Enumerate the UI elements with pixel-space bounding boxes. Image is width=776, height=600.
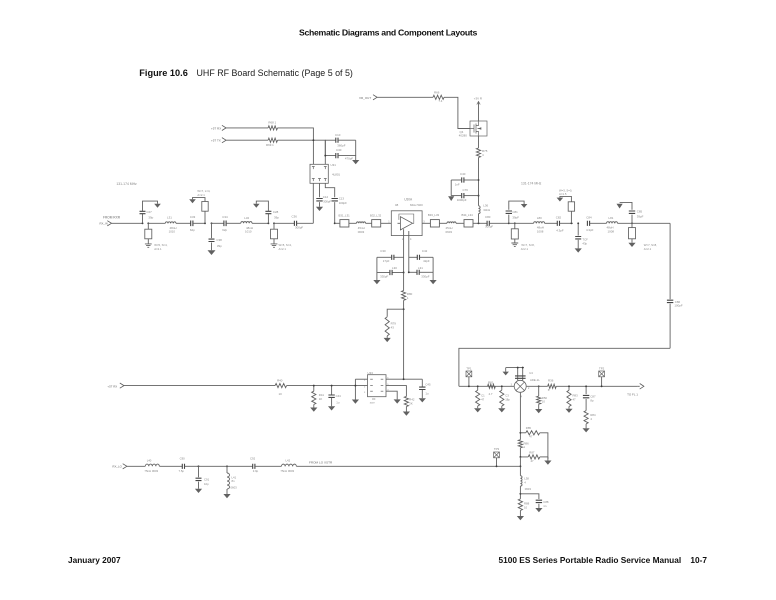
- svg-text:0603: 0603: [231, 486, 238, 490]
- svg-text:C30: C30: [336, 148, 342, 152]
- svg-text:L31: L31: [167, 215, 172, 219]
- svg-text:62p: 62p: [222, 228, 227, 232]
- node Z: [198, 465, 200, 467]
- svg-text:C80: C80: [485, 215, 491, 219]
- svg-text:C34: C34: [222, 215, 228, 219]
- ground: [535, 508, 542, 512]
- svg-text:TP1: TP1: [466, 367, 472, 371]
- svg-text:1000pF: 1000pF: [457, 198, 467, 202]
- svg-text:4.3pF: 4.3pF: [556, 229, 564, 233]
- capacitor C27: [142, 214, 144, 223]
- svg-text:A=2.1: A=2.1: [521, 247, 529, 251]
- svg-text:75nH 0603: 75nH 0603: [280, 469, 294, 473]
- microstrip stub TL5: [570, 211, 572, 223]
- svg-text:C90: C90: [180, 457, 186, 461]
- port +5T TX: [222, 138, 226, 143]
- wire: [478, 158, 480, 206]
- ground: [189, 199, 196, 203]
- wire: [556, 385, 637, 387]
- wire to mixer: [459, 348, 670, 386]
- wire: [473, 222, 487, 224]
- node B: [147, 222, 149, 224]
- test point TP2: [599, 371, 605, 377]
- capacitor C81: [508, 215, 510, 224]
- node T: [585, 385, 587, 387]
- wire: [519, 486, 521, 499]
- ferrite bead FB31: [335, 222, 340, 224]
- feedback capacitor C43: [409, 271, 417, 273]
- feedback capacitor C42: [409, 256, 417, 258]
- svg-text:47: 47: [531, 459, 535, 463]
- svg-text:A=1.5: A=1.5: [559, 192, 567, 196]
- resistor R66: [377, 96, 433, 98]
- ground: [154, 204, 161, 208]
- svg-text:MGL7400: MGL7400: [410, 203, 423, 207]
- svg-text:300pF: 300pF: [485, 225, 493, 229]
- node P: [468, 385, 470, 387]
- node H: [408, 271, 410, 273]
- capacitor C91: [198, 466, 200, 477]
- svg-text:+3V R: +3V R: [474, 97, 482, 101]
- svg-text:42pF: 42pF: [423, 259, 430, 263]
- node M: [570, 222, 572, 224]
- transistor Q4: [470, 121, 487, 136]
- wire: [381, 222, 392, 224]
- capacitor C13: [325, 183, 334, 197]
- svg-text:VR_OUT: VR_OUT: [359, 96, 371, 100]
- SAW output pin 5 / resistor R42: [386, 386, 406, 397]
- resistor R69: [226, 139, 268, 141]
- node B2: [204, 222, 206, 224]
- svg-text:B33_L33: B33_L33: [428, 213, 440, 217]
- ground: [477, 406, 479, 408]
- ground: [352, 160, 359, 164]
- svg-text:L80: L80: [537, 216, 542, 220]
- node D: [312, 139, 314, 141]
- svg-text:TO FL 1: TO FL 1: [627, 392, 638, 396]
- capacitor C84: [587, 221, 589, 226]
- svg-text:TP2: TP2: [599, 367, 605, 371]
- amp bottom stubs: [403, 229, 405, 272]
- resistor R84: [584, 411, 588, 424]
- mixer U4: [514, 380, 526, 392]
- capacitor C82: [545, 222, 558, 224]
- inductor L33: [349, 222, 357, 224]
- svg-text:C10: C10: [335, 133, 341, 137]
- resistor R87: [520, 448, 528, 457]
- resistor R83 shunt: [568, 386, 570, 390]
- svg-text:47: 47: [481, 398, 485, 402]
- resistor R41 shunt: [313, 386, 315, 392]
- inductor L32: [241, 222, 252, 224]
- capacitor C87: [585, 386, 587, 394]
- svg-text:C27: C27: [146, 210, 152, 214]
- svg-text:FROM RXR: FROM RXR: [103, 216, 121, 220]
- node J: [478, 222, 480, 224]
- svg-text:470pF: 470pF: [345, 157, 353, 161]
- svg-text:0603: 0603: [525, 487, 532, 491]
- ground: [501, 406, 503, 408]
- svg-text:C33: C33: [190, 215, 196, 219]
- microstrip stub TL4: [514, 223, 516, 229]
- svg-text:C45: C45: [425, 382, 431, 386]
- svg-text:RX_IN: RX_IN: [100, 221, 108, 225]
- svg-text:U33: U33: [368, 371, 374, 375]
- capacitor C44: [331, 386, 333, 395]
- svg-text:B34_L34: B34_L34: [462, 213, 474, 217]
- ground: [557, 198, 564, 202]
- wire: [278, 140, 326, 164]
- svg-text:C82: C82: [556, 215, 562, 219]
- svg-text:Figure 10.6: Figure 10.6: [139, 68, 188, 78]
- svg-text:300pF: 300pF: [323, 200, 331, 204]
- svg-text:A=2.1: A=2.1: [154, 247, 162, 251]
- node U: [601, 385, 603, 387]
- capacitor C33: [191, 221, 193, 227]
- svg-text:ADE-1L: ADE-1L: [530, 378, 540, 382]
- svg-text:131-174 MHz: 131-174 MHz: [521, 182, 542, 186]
- svg-text:C85: C85: [637, 209, 643, 213]
- svg-text:1008: 1008: [608, 230, 615, 234]
- capacitor C76: [478, 195, 480, 197]
- wire: [112, 222, 143, 224]
- ground: [316, 207, 323, 211]
- svg-text:39pF: 39pF: [637, 214, 644, 218]
- svg-text:43p: 43p: [582, 241, 587, 245]
- svg-text:47: 47: [573, 398, 577, 402]
- svg-text:1K: 1K: [319, 397, 323, 401]
- svg-text:100pF: 100pF: [339, 201, 347, 205]
- wire: [519, 457, 521, 476]
- ground: [313, 405, 315, 408]
- svg-text:RF: RF: [372, 397, 376, 401]
- ground: [432, 257, 434, 280]
- svg-text:+5T TX: +5T TX: [211, 139, 221, 143]
- ground: [386, 336, 388, 338]
- svg-text:18p: 18p: [505, 398, 510, 402]
- svg-text:L40: L40: [147, 459, 152, 463]
- svg-text:0603: 0603: [446, 230, 453, 234]
- capacitor C36: [274, 222, 294, 224]
- inductor L31: [148, 222, 165, 224]
- svg-text:8n: 8n: [232, 479, 236, 483]
- svg-text:R66: R66: [434, 90, 440, 94]
- svg-text:62p: 62p: [190, 228, 195, 232]
- resistor R88: [518, 499, 522, 511]
- node AC: [313, 385, 315, 387]
- svg-text:L42: L42: [286, 459, 291, 463]
- node R: [501, 385, 503, 387]
- node L: [508, 222, 510, 224]
- node R2: [538, 385, 540, 387]
- svg-text:1nF: 1nF: [455, 182, 460, 186]
- capacitor C47: [515, 376, 526, 378]
- wire: [252, 222, 268, 224]
- capacitor C45: [421, 379, 423, 386]
- ground: [226, 489, 228, 494]
- svg-text:0603: 0603: [358, 230, 365, 234]
- svg-text:B31_L31: B31_L31: [339, 213, 351, 217]
- svg-text:U30A: U30A: [404, 198, 413, 202]
- resistor R86: [518, 440, 522, 448]
- svg-text:330pF: 330pF: [380, 275, 388, 279]
- node I: [403, 308, 405, 310]
- inductor L40: [127, 465, 145, 467]
- svg-text:1u: 1u: [425, 391, 429, 395]
- svg-text:UHF RF Board Schematic (Page 5: UHF RF Board Schematic (Page 5 of 5): [197, 68, 353, 78]
- svg-text:C30: C30: [380, 249, 386, 253]
- svg-text:39p: 39p: [148, 215, 153, 219]
- svg-text:xcvr: xcvr: [370, 400, 375, 404]
- svg-text:C92: C92: [250, 457, 256, 461]
- svg-text:C36: C36: [292, 215, 298, 219]
- port +5T RX: [222, 125, 226, 130]
- svg-text:January 2007: January 2007: [68, 555, 121, 565]
- svg-text:FROM LO XSTR: FROM LO XSTR: [309, 460, 333, 464]
- capacitor C86: [669, 223, 671, 299]
- microstrip stub TL3: [273, 223, 275, 229]
- ferrite bead FB33: [422, 222, 430, 224]
- svg-text:08: 08: [395, 203, 399, 207]
- svg-text:330pF: 330pF: [421, 275, 429, 279]
- microstrip stub TL6: [631, 223, 633, 227]
- ground pillar: [354, 379, 356, 399]
- inductor L80: [509, 222, 534, 224]
- ground: [547, 457, 549, 461]
- node K: [478, 179, 480, 181]
- SAW output pin 6 wire: [386, 378, 422, 380]
- svg-text:1u: 1u: [336, 401, 340, 405]
- capacitor C11: [325, 140, 335, 155]
- capacitor C28: [267, 214, 269, 223]
- wire: [176, 222, 191, 224]
- svg-text:U31: U31: [331, 163, 337, 167]
- svg-text:10p: 10p: [204, 482, 209, 486]
- inductor L38: [520, 476, 522, 486]
- resistor R81: [488, 384, 496, 388]
- svg-text:L30: L30: [392, 266, 397, 270]
- wire: [296, 465, 520, 467]
- capacitor C85: [631, 215, 633, 224]
- wire: [403, 300, 405, 379]
- svg-text:43: 43: [391, 326, 395, 330]
- svg-text:C40: C40: [460, 172, 466, 176]
- wire: [278, 128, 314, 164]
- ground: [328, 406, 335, 410]
- svg-text:4L801: 4L801: [332, 172, 340, 176]
- node V: [519, 432, 521, 434]
- mixer balun: [517, 368, 519, 381]
- svg-text:L32: L32: [244, 216, 249, 220]
- node AB: [496, 465, 498, 467]
- svg-text:2K: 2K: [409, 401, 413, 405]
- svg-text:R81: R81: [488, 380, 494, 384]
- ground: [568, 407, 570, 409]
- svg-text:33nH: 33nH: [483, 208, 490, 212]
- ferrite bead FB34: [456, 222, 464, 224]
- test point TP1: [466, 371, 472, 377]
- svg-text:C13: C13: [339, 196, 345, 200]
- microstrip stub TL1: [147, 223, 149, 229]
- svg-text:C42: C42: [422, 249, 428, 253]
- svg-text:5100 ES Series Portable Radio: 5100 ES Series Portable Radio Service Ma…: [499, 555, 708, 565]
- ground: [585, 424, 587, 428]
- node X: [519, 465, 521, 467]
- feedback capacitor C30: [394, 256, 404, 258]
- svg-text:A=2.1: A=2.1: [197, 193, 205, 197]
- node W: [519, 456, 521, 458]
- svg-text:10: 10: [279, 392, 283, 396]
- svg-text:B32_L32: B32_L32: [370, 213, 382, 217]
- inductor L36: [479, 206, 481, 214]
- node G: [403, 272, 405, 274]
- microstrip stub TL2: [204, 211, 206, 223]
- svg-text:40280: 40280: [459, 134, 467, 138]
- inductor L41: [226, 466, 228, 473]
- svg-text:R68 1: R68 1: [268, 121, 276, 125]
- ground: [376, 257, 378, 280]
- wire: [355, 378, 367, 380]
- svg-text:75nH 0603: 75nH 0603: [144, 469, 158, 473]
- resistor R68: [226, 127, 268, 129]
- svg-text:R40: R40: [277, 378, 283, 382]
- node F: [334, 222, 336, 224]
- svg-text:C44: C44: [336, 394, 342, 398]
- svg-text:1n: 1n: [543, 504, 547, 508]
- resistor R75: [478, 136, 480, 148]
- wire: [450, 180, 452, 196]
- svg-text:1010: 1010: [169, 229, 176, 233]
- node L2: [514, 222, 516, 224]
- node Q: [477, 385, 479, 387]
- ground: [519, 511, 521, 517]
- ground: [511, 243, 518, 246]
- ground: [448, 196, 454, 201]
- svg-text:RX_LO: RX_LO: [112, 464, 122, 468]
- SAW pin 4 ground: [386, 391, 397, 399]
- svg-text:+5T RX: +5T RX: [211, 126, 221, 130]
- svg-text:L31: L31: [418, 266, 423, 270]
- ground: [271, 244, 278, 247]
- svg-text:360pF: 360pF: [337, 143, 345, 147]
- ground: [253, 204, 260, 208]
- node AE: [354, 385, 356, 387]
- ground: [208, 250, 216, 255]
- svg-text:39pF: 39pF: [512, 215, 519, 219]
- svg-text:47: 47: [529, 435, 533, 439]
- ground: [538, 404, 540, 409]
- resistor R82: [527, 385, 548, 387]
- svg-text:C28: C28: [273, 210, 279, 214]
- resistor R85: [520, 432, 525, 434]
- svg-text:1010: 1010: [245, 229, 252, 233]
- capacitor C80: [487, 221, 489, 226]
- inductor L81: [607, 222, 618, 224]
- svg-text:10: 10: [542, 400, 546, 404]
- svg-text:L81: L81: [609, 216, 614, 220]
- wire: [519, 393, 521, 440]
- svg-text:100pF: 100pF: [674, 304, 682, 308]
- capacitor C10: [325, 139, 335, 141]
- ground: [145, 244, 152, 247]
- inductor L34: [439, 222, 447, 224]
- node N: [577, 222, 579, 224]
- svg-text:R69 1: R69 1: [266, 143, 274, 147]
- output TO FL 1: [640, 384, 644, 390]
- svg-text:4.7: 4.7: [489, 392, 493, 396]
- node C: [267, 222, 269, 224]
- resistor R79: [387, 309, 403, 317]
- svg-text:7.5p: 7.5p: [179, 469, 185, 473]
- capacitor C34: [212, 222, 224, 224]
- node AF: [403, 378, 405, 380]
- ground: [195, 489, 202, 493]
- ground: [419, 398, 426, 402]
- capacitor C40: [464, 179, 478, 181]
- node Y: [519, 493, 521, 495]
- svg-text:C84: C84: [586, 216, 592, 220]
- amplifier U30A: [391, 211, 422, 236]
- feedback capacitor C41: [392, 272, 403, 274]
- capacitor C83: [577, 223, 579, 235]
- capacitor C12: [319, 183, 321, 197]
- wire: [618, 222, 671, 224]
- capacitor C90: [159, 465, 182, 467]
- svg-text:39p: 39p: [274, 215, 279, 219]
- ground: [575, 248, 582, 252]
- svg-text:C76: C76: [463, 188, 469, 192]
- svg-text:1008: 1008: [537, 230, 544, 234]
- resistor R40: [124, 385, 275, 387]
- svg-text:131-174 MHz: 131-174 MHz: [116, 182, 137, 186]
- svg-text:Schematic Diagrams and Compone: Schematic Diagrams and Component Layouts: [299, 27, 478, 37]
- resistor R80: [403, 273, 405, 291]
- node AD: [331, 385, 333, 387]
- svg-text:3.9p: 3.9p: [253, 469, 259, 473]
- node O: [631, 222, 633, 224]
- svg-text:+5T RX: +5T RX: [107, 384, 117, 388]
- svg-text:R36: R36: [548, 379, 554, 383]
- node AA: [226, 465, 228, 467]
- pin 1 wire: [312, 183, 314, 223]
- test point TP3: [494, 452, 500, 458]
- node A: [142, 222, 144, 224]
- node E: [324, 155, 326, 157]
- svg-text:10: 10: [524, 506, 528, 510]
- svg-text:U4: U4: [529, 371, 533, 375]
- svg-text:8p: 8p: [590, 399, 594, 403]
- resistor R77 shunt: [501, 386, 503, 390]
- capacitor C38: [211, 222, 213, 224]
- wire: [287, 385, 368, 387]
- capacitor C92: [199, 465, 253, 467]
- svg-text:17pF: 17pF: [383, 259, 390, 263]
- ground: [628, 243, 635, 247]
- ground: [505, 368, 507, 372]
- ferrite bead FB32: [366, 222, 372, 224]
- svg-text:R87: R87: [529, 451, 535, 455]
- SAW filter U33: [368, 375, 387, 397]
- node S: [568, 385, 570, 387]
- svg-text:C38: C38: [216, 238, 222, 242]
- svg-text:C12: C12: [323, 195, 329, 199]
- resistor R76 shunt: [477, 386, 479, 390]
- RF switch U31: [310, 164, 328, 183]
- svg-text:300pF: 300pF: [295, 225, 303, 229]
- svg-text:C81: C81: [512, 210, 518, 214]
- svg-text:TP3: TP3: [494, 447, 500, 451]
- svg-text:R85: R85: [526, 426, 532, 430]
